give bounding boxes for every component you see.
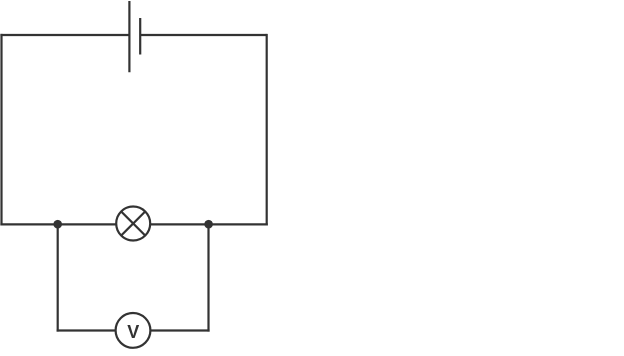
wire: left branch vertical to voltmeter bbox=[57, 224, 59, 331]
wire: voltmeter bottom horizontal left segment bbox=[57, 329, 117, 331]
wire: left vertical of main loop bbox=[0, 34, 2, 226]
svg-text:V: V bbox=[127, 322, 139, 342]
voltmeter V1 (circle) bbox=[116, 313, 151, 348]
lamp L1 (circle with cross) bbox=[116, 207, 150, 241]
wire: bottom horizontal right of lamp bbox=[150, 223, 268, 225]
battery cell (long plate, positive) bbox=[128, 1, 130, 72]
wire: top horizontal, battery left segment bbox=[0, 34, 129, 36]
wire: top horizontal, battery right segment bbox=[140, 34, 267, 36]
wire: voltmeter bottom horizontal right segment bbox=[150, 329, 210, 331]
wire: bottom horizontal left of lamp bbox=[0, 223, 116, 225]
wire: right vertical of main loop bbox=[266, 34, 268, 226]
node junction dot right bbox=[204, 220, 213, 229]
node junction dot left bbox=[53, 220, 62, 229]
wire: right branch vertical to voltmeter bbox=[207, 224, 209, 331]
battery cell (short plate, negative) bbox=[139, 18, 141, 55]
